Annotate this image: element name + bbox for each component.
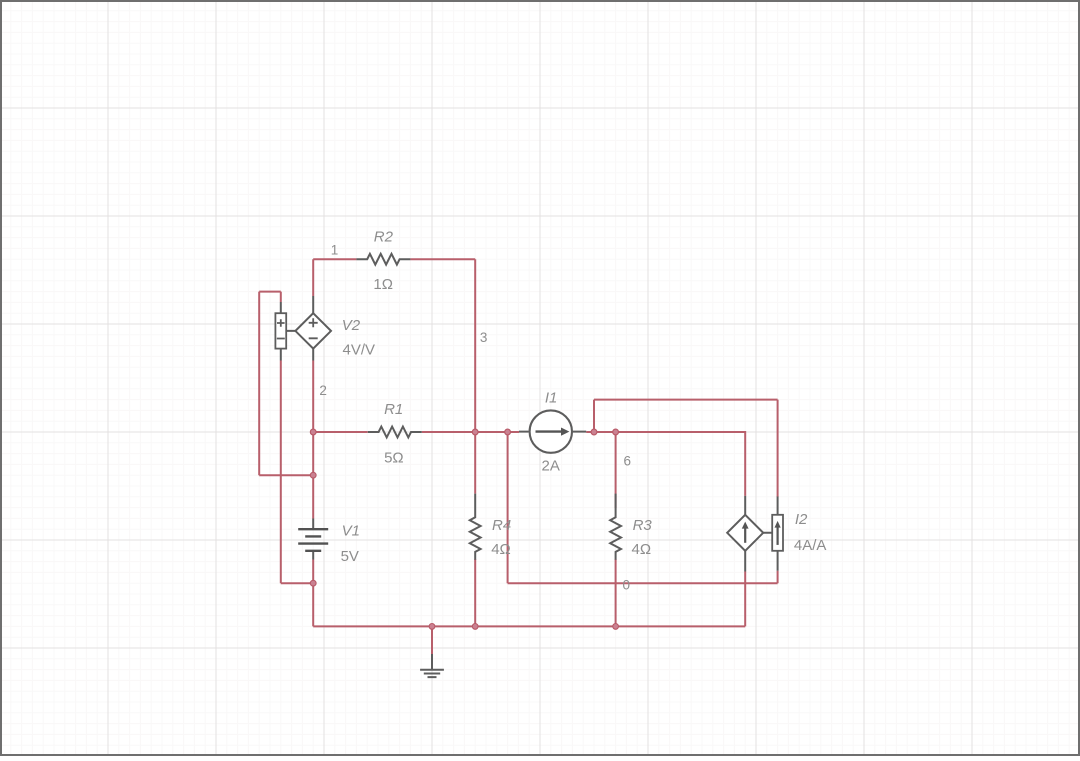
- svg-text:6: 6: [624, 454, 632, 469]
- svg-text:R4: R4: [492, 517, 511, 534]
- svg-text:3: 3: [480, 330, 488, 345]
- svg-text:R2: R2: [374, 229, 394, 246]
- svg-text:5V: 5V: [341, 548, 359, 565]
- svg-text:V2: V2: [342, 317, 361, 334]
- svg-text:I1: I1: [545, 389, 558, 406]
- svg-text:4A/A: 4A/A: [794, 537, 827, 554]
- svg-text:4V/V: 4V/V: [343, 342, 376, 359]
- svg-text:R3: R3: [633, 517, 653, 534]
- svg-text:2A: 2A: [542, 458, 560, 475]
- svg-text:R1: R1: [384, 401, 403, 418]
- svg-text:V1: V1: [342, 523, 360, 540]
- svg-text:I2: I2: [795, 511, 808, 528]
- svg-text:1Ω: 1Ω: [373, 276, 393, 293]
- svg-text:2: 2: [319, 383, 327, 398]
- svg-text:4Ω: 4Ω: [491, 541, 511, 558]
- svg-text:1: 1: [331, 242, 339, 257]
- svg-text:5Ω: 5Ω: [384, 450, 404, 467]
- svg-text:4Ω: 4Ω: [632, 541, 652, 558]
- svg-text:0: 0: [623, 578, 631, 593]
